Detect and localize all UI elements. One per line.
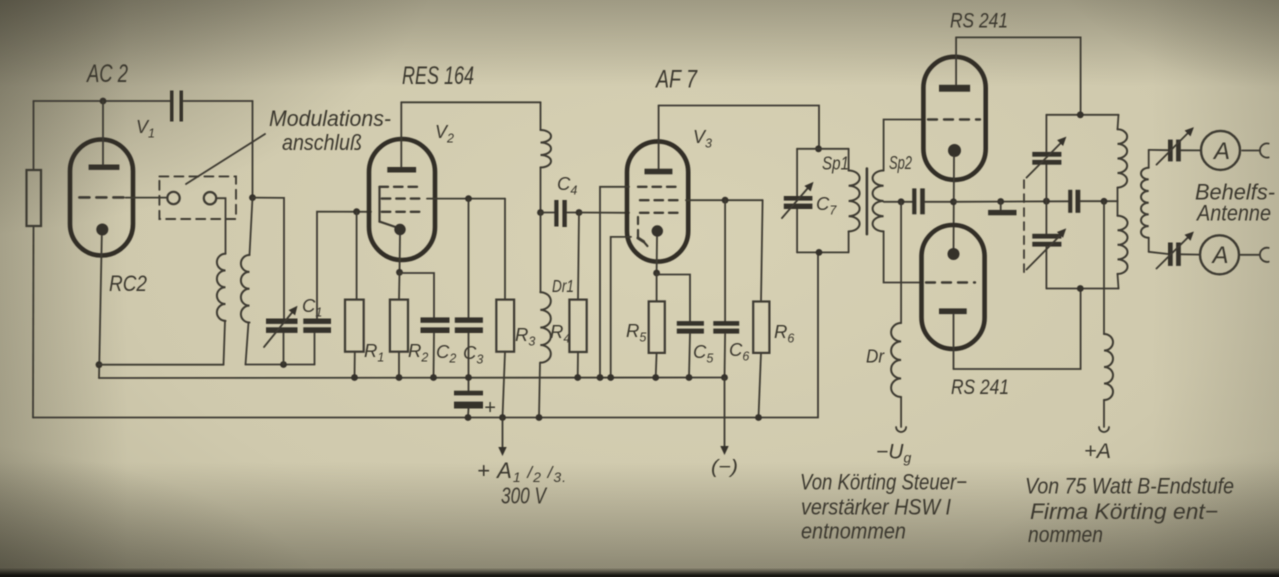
wire cathode to C2: [400, 273, 435, 317]
V2 control grid (dashed row 3): [382, 211, 425, 213]
lower RS241 cathode dot: [948, 248, 960, 260]
V3 suppressor connection: [637, 217, 639, 238]
mechanical gang link (dashed): [1023, 180, 1025, 272]
node anode feed on bottom rail: [1077, 285, 1084, 292]
node cathode / centre line: [950, 198, 957, 205]
wire V3 anode rail to Sp1: [659, 106, 819, 149]
node Sp1 feed top: [815, 145, 822, 152]
pointer line label to jack: [186, 134, 265, 184]
svg-text:AF 7: AF 7: [654, 66, 697, 94]
svg-text:Dr: Dr: [866, 346, 885, 367]
meter A (bottom): [1181, 253, 1200, 255]
svg-text:R4: R4: [550, 321, 570, 346]
arrow lower variable cap: [1027, 233, 1064, 270]
inductor top tank coil: [1118, 115, 1119, 130]
node C4 right / V3 grid: [576, 209, 583, 216]
capacitor variable lower tank: [1045, 201, 1047, 234]
bottom tank rail: [1046, 288, 1118, 290]
wire cathode line between tubes: [953, 156, 956, 254]
svg-text:C2: C2: [436, 341, 456, 366]
arrow minus supply tap: [724, 378, 726, 448]
svg-text:C3: C3: [463, 342, 483, 367]
V2 anode plate and lead to top rail: [387, 167, 416, 173]
svg-text:R5: R5: [626, 320, 646, 345]
node C6 bottom / minus tap: [721, 374, 728, 381]
V3 middle row (dashed) exits right: [640, 199, 682, 201]
jack terminal circle left: [167, 192, 179, 204]
core line between Sp1 and Sp2: [866, 169, 869, 235]
terminal +A hook: [1099, 427, 1109, 432]
node bias tap: [898, 198, 905, 205]
V3 anode plate and lead: [645, 169, 673, 175]
capacitor C4 coupling: [541, 212, 555, 214]
resistor R3 (screen feed): [504, 199, 506, 300]
lower RS241 anode plate and lead: [939, 308, 967, 314]
node R4 bottom on bus: [574, 374, 581, 381]
node +A feed tap: [1101, 198, 1108, 205]
tube V2 (RES 164) envelope: [369, 139, 435, 260]
node C6 tap on screen wire: [722, 197, 729, 204]
Modulationsanschluss dashed box: [159, 176, 236, 219]
capacitor stub to earth bar: [1000, 202, 1002, 210]
wire Sp2 top to upper RS241 grid: [884, 120, 924, 171]
inductor Sp1 coil: [849, 171, 860, 232]
svg-text:AC 2: AC 2: [86, 60, 129, 88]
node R1 bottom on bus: [351, 374, 358, 381]
capacitor variable upper tank: [1045, 165, 1047, 202]
inductor antenna coupling coil: [1148, 150, 1150, 168]
tube RS241 upper envelope: [923, 57, 985, 180]
node V2 cathode junction: [396, 269, 403, 276]
node grid circuit top: [249, 194, 256, 201]
tube V3 (AF 7) envelope: [627, 141, 688, 261]
wire secondary bottom to C1 bottom: [246, 364, 315, 366]
node C3 bottom on bus: [465, 374, 472, 381]
lower RS241 grid (dashed): [926, 281, 975, 283]
node ganged caps centre: [1043, 198, 1050, 205]
wire and open terminal (top): [1242, 150, 1260, 152]
V1 anode plate and lead: [89, 165, 120, 170]
V1 grid (dashed): [79, 196, 125, 199]
svg-text:nommen: nommen: [1028, 522, 1103, 547]
wire centre line: [954, 200, 1069, 203]
svg-text:RS 241: RS 241: [950, 9, 1008, 33]
terminal -Ug hook: [896, 427, 906, 432]
capacitor C5 cathode bypass: [657, 275, 690, 322]
svg-text:verstärker HSW I: verstärker HSW I: [801, 495, 951, 520]
svg-text:C6: C6: [729, 339, 749, 364]
svg-text:Dr1: Dr1: [552, 276, 574, 296]
inductor secondary coil (right winding): [250, 198, 253, 255]
svg-text:C4: C4: [557, 173, 577, 198]
wire cathode to primary coil bottom: [99, 364, 224, 366]
svg-text:+ A1 /2 /3.: + A1 /2 /3.: [477, 458, 567, 485]
resistor R6 screen feed: [761, 200, 763, 301]
wire and open terminal (bottom): [1241, 254, 1260, 256]
tube V1 (AC 2) envelope: [70, 140, 133, 256]
svg-text:entnommen: entnommen: [801, 519, 906, 544]
wire V2 anode top rail: [401, 101, 540, 103]
upper RS241 grid (dashed): [928, 118, 980, 120]
inductor Sp2 coil: [873, 171, 884, 232]
svg-text:V3: V3: [693, 127, 712, 151]
capacitor C7 variable: [784, 196, 813, 201]
wire bottom +300V bus: [33, 252, 818, 417]
svg-text:C1: C1: [302, 295, 322, 320]
node R3 bottom / +300V tap: [499, 414, 506, 421]
wire cathode return bus (y 377.5): [99, 377, 725, 380]
wire Sp2 centre tap: [884, 201, 913, 203]
svg-text:A: A: [1212, 138, 1230, 165]
V2 cathode dot and lead: [394, 224, 405, 235]
meter A (top): [1181, 149, 1201, 151]
wire cap to grid-circuit corner: [184, 100, 253, 102]
wire grid line to V3: [579, 212, 629, 214]
capacitor grid padder (right section of C1): [303, 319, 331, 324]
capacitor antenna variable (bottom): [1168, 243, 1173, 266]
node anode feed on top rail: [1077, 111, 1084, 118]
node stub capacitor: [997, 198, 1004, 205]
capacitor feedback (top, unlabeled): [170, 91, 174, 122]
wire padder bottom: [314, 333, 316, 365]
svg-text:C5: C5: [693, 341, 713, 366]
capacitor C2: [421, 317, 450, 322]
svg-text:R1: R1: [364, 340, 384, 365]
V2 screen grid (dashed row 2): [382, 197, 425, 199]
tube RS241 lower envelope: [922, 225, 985, 349]
svg-text:anschluß: anschluß: [282, 130, 362, 155]
wire V2 screen out right: [427, 198, 505, 200]
resistor (grid leak, unlabeled) far left: [27, 170, 42, 226]
arrow +300V supply tap: [502, 418, 504, 450]
svg-text:Modulations-: Modulations-: [269, 106, 391, 131]
resistor R4 grid leak: [578, 213, 579, 300]
capacitor electrolytic smoothing with +: [454, 391, 483, 396]
tank circuit Sp1 frame: [797, 148, 849, 150]
svg-text:A: A: [1211, 242, 1229, 269]
svg-text:R3: R3: [515, 324, 535, 349]
upper RS241 cathode dot: [948, 144, 961, 157]
capacitor antenna variable (top): [1168, 140, 1173, 162]
wire Sp2 bottom to lower RS241 grid: [884, 231, 922, 282]
wire V1 grid to modulation jack: [126, 197, 168, 199]
node screen / C3: [465, 195, 472, 202]
svg-text:R6: R6: [774, 321, 794, 346]
inductor primary coil (left winding): [217, 254, 226, 321]
node Sp1 bottom: [816, 249, 823, 256]
svg-text:RC2: RC2: [109, 271, 147, 296]
resistor R1: [356, 212, 358, 300]
svg-text:Von 75 Watt B-Endstufe: Von 75 Watt B-Endstufe: [1025, 474, 1234, 499]
svg-text:−Ug: −Ug: [876, 441, 911, 466]
inductor Dr1 choke: [540, 213, 542, 293]
wire upper anode to top tank: [956, 37, 1081, 114]
node screen return on bus: [597, 374, 604, 381]
arrow of variable capacitor C1: [264, 310, 295, 348]
inductor anode coupling coil above C4: [540, 102, 542, 130]
svg-text:V2: V2: [435, 122, 454, 146]
jack terminal circle right: [204, 192, 216, 204]
node R2 bottom on bus: [396, 374, 403, 381]
node R6 bottom on +300V bus: [755, 414, 762, 421]
upper RS241 anode plate and lead: [939, 85, 970, 92]
wire grid top to C1: [253, 198, 285, 319]
resistor R2: [398, 272, 401, 299]
node C4 left: [537, 209, 544, 216]
resistor R5 cathode bias: [656, 273, 658, 301]
capacitor C1 variable (left section): [266, 319, 298, 324]
svg-text:V1: V1: [136, 117, 155, 141]
node Dr1 bottom on +300V bus: [536, 414, 543, 421]
node C2 bottom on bus: [430, 374, 437, 381]
inductor +A feed choke: [1103, 201, 1105, 334]
svg-text:+A: +A: [1084, 440, 1111, 463]
svg-text:Sp2: Sp2: [889, 152, 912, 173]
wire lower anode to bottom tank: [954, 289, 1081, 370]
node V1 anode junction: [100, 98, 107, 105]
svg-text:+: +: [484, 397, 496, 419]
svg-text:RES 164: RES 164: [402, 62, 474, 90]
wire antenna bottom branch: [1149, 252, 1168, 254]
wire top-left vertical and top rail to coupling cap: [33, 101, 35, 170]
svg-text:RS 241: RS 241: [951, 375, 1009, 399]
node C5 bottom on bus: [686, 374, 693, 381]
capacitor centre coupling (to cathode line): [912, 188, 916, 214]
svg-text:Sp1: Sp1: [822, 153, 849, 174]
V3 screen row (dashed) exits left: [638, 186, 679, 188]
V3 control grid row (dashed): [640, 212, 682, 214]
node R1 / grid: [353, 208, 360, 215]
capacitor C3: [468, 199, 470, 318]
svg-text:Firma Körting ent−: Firma Körting ent−: [1030, 499, 1218, 524]
svg-text:R2: R2: [408, 340, 428, 365]
node cathode / coil return: [96, 361, 103, 368]
wire jack to primary coil: [216, 198, 225, 254]
V2 cathode rail (dashed row 1): [380, 186, 421, 188]
node R5 bottom on bus: [652, 374, 659, 381]
node C1 bottom: [280, 361, 287, 368]
arrow upper variable cap: [1027, 141, 1064, 178]
inductor Dr bias choke: [900, 202, 902, 323]
V3 cathode dot and lead: [652, 225, 663, 236]
svg-text:Von Körting Steuer−: Von Körting Steuer−: [800, 470, 967, 495]
inductor bottom tank coil: [1117, 201, 1119, 216]
node suppressor return on bus: [607, 374, 614, 381]
svg-text:(−): (−): [711, 457, 738, 478]
capacitor centre line coupling right: [1068, 190, 1072, 213]
capacitor C6 screen bypass: [724, 200, 726, 321]
svg-text:300 V: 300 V: [501, 483, 548, 509]
node electrolytic on +300V bus: [465, 414, 472, 421]
node V3 cathode junction: [653, 270, 660, 277]
top tank rail: [1046, 114, 1118, 116]
svg-text:Antenne: Antenne: [1195, 201, 1271, 226]
wire resistor bottom down to supply bus: [32, 226, 35, 418]
V1 cathode dot and lead: [96, 224, 108, 236]
wire antenna top branch: [1149, 149, 1168, 151]
wire padder top to V2 grid line: [317, 212, 371, 319]
svg-text:C7: C7: [816, 193, 837, 218]
